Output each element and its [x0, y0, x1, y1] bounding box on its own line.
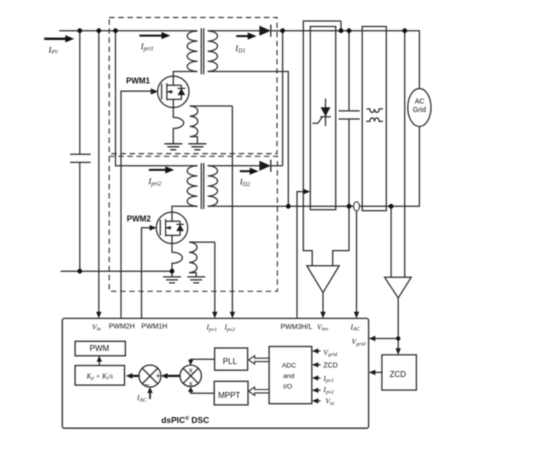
- svg-text:IAC: IAC: [136, 393, 147, 403]
- svg-text:Vin: Vin: [92, 322, 101, 332]
- svg-text:ADC: ADC: [282, 362, 296, 369]
- svg-text:Ipv1: Ipv1: [206, 323, 218, 333]
- svg-text:ID1: ID1: [234, 43, 245, 55]
- svg-text:Ipv1: Ipv1: [322, 374, 334, 384]
- svg-text:PWM3H/L: PWM3H/L: [281, 324, 313, 331]
- svg-text:Vin: Vin: [325, 397, 334, 407]
- svg-text:PWM1: PWM1: [126, 77, 151, 86]
- svg-text:Kp + Ki/s: Kp + Ki/s: [86, 372, 114, 381]
- svg-text:ZCD: ZCD: [323, 363, 337, 370]
- svg-text:Grid: Grid: [413, 107, 426, 114]
- svg-text:PWM2H: PWM2H: [109, 323, 135, 330]
- svg-text:Vinv: Vinv: [317, 322, 329, 332]
- svg-text:Vgrid: Vgrid: [323, 348, 337, 358]
- svg-text:Vgrid: Vgrid: [352, 337, 366, 347]
- svg-text:PWM2: PWM2: [127, 214, 152, 223]
- svg-text:+: +: [156, 371, 161, 381]
- svg-text:PLL: PLL: [223, 357, 238, 366]
- svg-text:ZCD: ZCD: [390, 370, 407, 379]
- svg-text:PWM: PWM: [90, 344, 110, 353]
- svg-text:and: and: [283, 373, 295, 380]
- svg-text:x: x: [189, 366, 193, 375]
- svg-text:Ipri2: Ipri2: [147, 176, 161, 188]
- svg-text:Ipv2: Ipv2: [322, 385, 334, 395]
- svg-text:ID2: ID2: [239, 176, 250, 188]
- svg-text:AC: AC: [415, 98, 425, 105]
- svg-text:Ipri1: Ipri1: [140, 41, 154, 53]
- svg-text:MPPT: MPPT: [218, 391, 240, 400]
- svg-text:I/O: I/O: [283, 383, 292, 390]
- svg-text:IPV: IPV: [48, 44, 59, 55]
- svg-text:dsPIC® DSC: dsPIC® DSC: [161, 415, 209, 425]
- svg-text:PWM1H: PWM1H: [141, 323, 167, 330]
- svg-text:IAC: IAC: [350, 322, 361, 332]
- svg-text:−: −: [144, 380, 150, 391]
- svg-text:x: x: [189, 379, 193, 388]
- svg-text:Ipv2: Ipv2: [224, 323, 236, 333]
